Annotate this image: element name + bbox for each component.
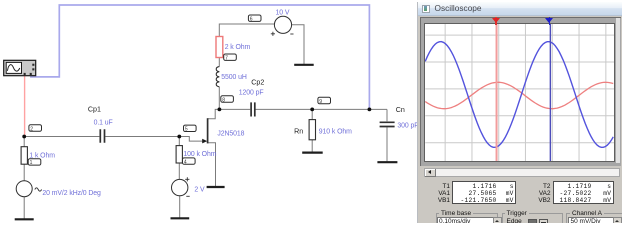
svg-text:2 V: 2 V — [194, 186, 205, 193]
svg-text:2: 2 — [30, 126, 33, 132]
svg-text:4: 4 — [184, 159, 187, 165]
svg-text:1 k Ohm: 1 k Ohm — [29, 153, 55, 160]
svg-text:Cp1: Cp1 — [88, 105, 101, 113]
svg-text:100 k Ohm: 100 k Ohm — [183, 151, 216, 158]
svg-text:910 k Ohm: 910 k Ohm — [319, 129, 352, 136]
svg-text:1200 pF: 1200 pF — [239, 90, 264, 97]
svg-text:300 pF: 300 pF — [397, 123, 418, 130]
svg-text:Rn: Rn — [294, 128, 303, 136]
svg-text:9: 9 — [319, 99, 322, 105]
svg-text:J2N5018: J2N5018 — [217, 130, 244, 137]
svg-text:1: 1 — [30, 160, 33, 166]
svg-text:5500 uH: 5500 uH — [221, 74, 247, 81]
svg-text:6: 6 — [250, 17, 253, 23]
svg-text:Cp2: Cp2 — [251, 78, 264, 86]
svg-text:7: 7 — [225, 56, 228, 62]
svg-text:8: 8 — [222, 97, 225, 103]
svg-text:20 mV/2 kHz/0 Deg: 20 mV/2 kHz/0 Deg — [42, 190, 101, 197]
svg-text:0.1 uF: 0.1 uF — [94, 120, 113, 127]
svg-text:5: 5 — [185, 127, 188, 133]
svg-text:Cn: Cn — [396, 106, 405, 114]
svg-text:2 k Ohm: 2 k Ohm — [225, 44, 251, 51]
svg-text:10 V: 10 V — [276, 9, 290, 16]
